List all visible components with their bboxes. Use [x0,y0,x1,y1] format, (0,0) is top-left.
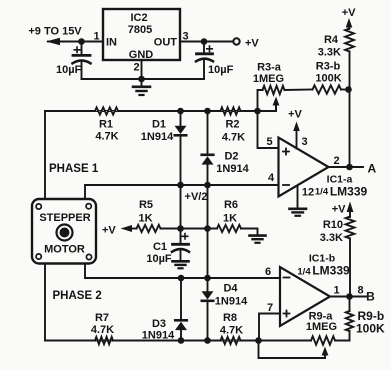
regulator IC2 7805 [103,9,180,60]
svg-text:3.3K: 3.3K [320,232,343,244]
svg-text:OUT: OUT [154,37,178,49]
svg-text:R8: R8 [223,312,237,324]
svg-text:4: 4 [268,172,275,184]
svg-text:2: 2 [133,62,139,74]
diode D3 1N914 [180,278,182,320]
node: D3 bottom [178,337,185,344]
svg-text:D4: D4 [223,283,238,295]
node A [346,164,353,171]
svg-text:A: A [367,161,376,175]
node: C1 / R5 [177,225,184,232]
svg-text:IN: IN [106,37,117,49]
wire: R6 to ground [241,229,258,236]
svg-text:R4: R4 [324,34,339,46]
wire: 7805 OUT to +V terminal [180,41,233,43]
wire: wiper riser [275,105,277,111]
resistor R9-b 100K [346,311,353,331]
pin 5 [258,111,279,148]
node: R3-b / R4 junction [345,86,352,93]
svg-text:2: 2 [333,155,339,167]
op-amp IC1-a [279,138,329,197]
node: R6 / divider [204,225,211,232]
wire: ground bus under caps [82,78,205,80]
ground (C1) [173,260,189,263]
wire: R3-a to R3-b [285,89,313,92]
svg-text:1MEG: 1MEG [253,73,284,85]
svg-text:R10: R10 [323,219,343,231]
svg-text:PHASE 1: PHASE 1 [49,163,99,175]
wire: wiper feedback run [259,341,326,359]
resistor R5 1K [137,225,161,232]
ground (main) [141,79,143,86]
wire: phase-1 sense line to pin 4 [85,185,279,199]
wire: output to node A [329,166,364,168]
svg-text:+V: +V [288,109,302,121]
wire: D1 bottom down to C1 node [180,185,182,229]
wire: R3-b to node [341,89,350,91]
potentiometer R9-a 1MEG [311,336,335,344]
resistor R8 4.7K [221,337,241,344]
resistor R3-b 100K [313,85,342,93]
wire: R5 to divider node [161,228,218,230]
svg-text:B: B [366,290,375,304]
wire: R9-b to feedback line [349,331,351,341]
wire: phase-2 sense line to pin 6 [85,264,280,279]
ground (R6) [250,234,266,237]
svg-text:1: 1 [93,31,99,43]
node: R8 / pin7 / wiper [255,337,262,344]
svg-text:1K: 1K [138,213,152,225]
op-amp IC1-b [280,267,330,326]
svg-text:4.7K: 4.7K [91,324,114,336]
svg-text:7805: 7805 [128,24,152,36]
wire: feedback line [259,340,312,342]
svg-text:1: 1 [333,285,339,297]
node B [346,293,353,300]
pin 7 [259,314,280,341]
svg-text:3.3K: 3.3K [318,47,341,59]
node: D3 top [178,275,185,282]
svg-text:D1: D1 [152,119,166,131]
wire: left rail lower [44,264,46,341]
resistor R6 1K [217,225,241,232]
+V arrow for R4 [346,18,353,28]
svg-text:D3: D3 [152,318,166,330]
svg-text:LM339: LM339 [312,264,350,278]
terminal +V (open circle) [233,38,239,44]
svg-text:10µF: 10µF [208,64,234,76]
svg-text:1/4: 1/4 [297,267,311,278]
wire: R10 to node B [349,239,351,297]
pin 12 ground [297,186,299,208]
svg-text:7: 7 [267,302,273,314]
wire: output to node B [330,296,366,298]
wire: GND pin down [141,60,143,79]
svg-text:+V: +V [245,38,259,50]
wire: R3-a left lead down to node [258,90,263,111]
resistor R7 4.7K [95,337,113,344]
wire: left rail upper [44,111,46,199]
wire: D2 bottom down through divider to phase-2 line [207,185,209,278]
svg-text:+9 TO 15V: +9 TO 15V [28,25,82,37]
resistor R10 3.3K [346,217,355,239]
svg-text:1K: 1K [223,213,237,225]
svg-text:MOTOR: MOTOR [44,244,85,256]
node: D2 top [204,108,211,115]
R3-a wiper arrow [273,97,280,106]
node: pin5 / R3-a junction [254,108,261,115]
wire: R4 to R3-b node [349,52,351,90]
svg-text:100K: 100K [356,322,385,336]
wire: node B down to R9-b [349,297,351,312]
svg-text:R3-a: R3-a [257,62,282,74]
svg-text:PHASE 2: PHASE 2 [53,290,102,302]
svg-text:12: 12 [302,187,314,199]
node: D1 top [177,108,184,115]
pin 3 +V arrow [293,122,300,132]
svg-text:C1: C1 [153,241,167,253]
svg-text:D2: D2 [224,151,238,163]
svg-text:1MEG: 1MEG [306,321,337,333]
node: ground junction [138,76,145,83]
svg-text:4.7K: 4.7K [220,325,243,337]
+V arrow for R10 [347,202,354,213]
svg-text:4.7K: 4.7K [222,132,245,144]
wire: +9-15V input line to 7805 IN [48,41,103,43]
R5 feed arrow [121,225,133,232]
svg-text:+V: +V [102,225,116,237]
input arrow [46,38,60,46]
node: D4 bottom [204,337,211,344]
resistor R1 4.7K [95,107,118,114]
resistor R4 3.3K [345,29,354,52]
svg-text:IC2: IC2 [130,12,147,24]
svg-text:10µF: 10µF [56,64,82,76]
diode D2 1N914 [207,111,209,154]
capacitor 10uF (input) [81,44,83,54]
capacitor C1 10uF [180,229,182,244]
potentiometer R3-a 1MEG [263,86,285,94]
capacitor 10uF (output) [203,44,205,53]
svg-text:R5: R5 [139,199,153,211]
svg-text:6: 6 [265,266,271,278]
node: input cap tap [78,38,85,45]
svg-text:R1: R1 [99,119,113,131]
node: output cap tap [201,38,208,45]
svg-text:4.7K: 4.7K [95,131,118,143]
svg-text:1N914: 1N914 [216,163,249,175]
svg-text:STEPPER: STEPPER [39,212,90,224]
diode D4 1N914 [207,278,209,292]
svg-text:3: 3 [301,136,307,148]
svg-text:5: 5 [266,136,272,148]
svg-text:1N914: 1N914 [215,296,248,308]
diode D1 1N914 [180,111,182,126]
svg-text:R7: R7 [95,312,109,324]
svg-text:10µF: 10µF [146,253,172,265]
node: D4 top [204,275,211,282]
stepper motor [32,199,96,264]
wire: phase-1 top line [45,110,276,112]
svg-text:R6: R6 [224,199,238,211]
svg-text:1N914: 1N914 [141,131,174,143]
svg-text:8: 8 [357,285,363,297]
R9-a wiper arrow [322,347,329,356]
wire: node down to output A [349,90,351,168]
svg-text:1/4: 1/4 [315,187,329,198]
svg-text:R3-b: R3-b [316,61,341,73]
svg-text:+V: +V [332,204,346,216]
wire: bottom phase-1 drive line [45,340,259,342]
svg-text:LM339: LM339 [330,185,368,199]
svg-text:R2: R2 [225,119,239,131]
resistor R2 4.7K [221,107,241,114]
svg-text:+V/2: +V/2 [185,191,208,203]
node: D2 bottom [204,182,211,189]
svg-text:100K: 100K [315,73,341,85]
node: D1 bottom [177,182,184,189]
svg-text:+V: +V [342,7,356,19]
